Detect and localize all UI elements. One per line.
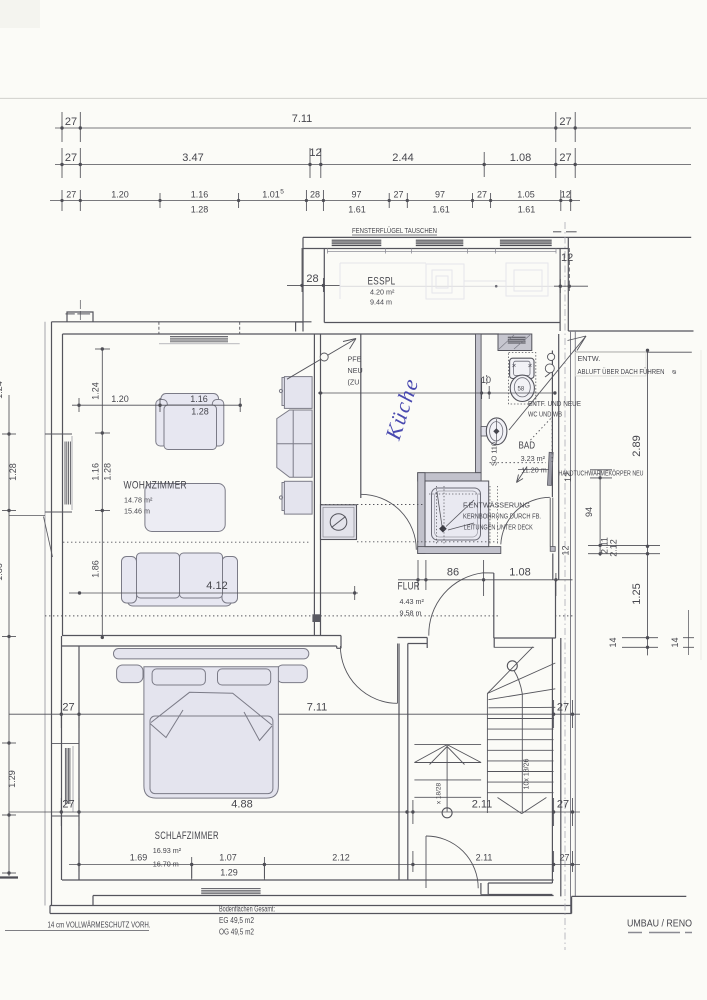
top-left scan smudge xyxy=(0,0,40,28)
svg-text:1.08: 1.08 xyxy=(509,567,530,579)
svg-text:1.86: 1.86 xyxy=(0,563,4,581)
sofa xyxy=(122,553,238,606)
svg-text:1.28: 1.28 xyxy=(191,407,209,417)
10 dim in Bad xyxy=(318,375,555,399)
vent arrow to roof xyxy=(509,336,586,430)
svg-text:NEU: NEU xyxy=(348,366,363,375)
drain point xyxy=(439,525,447,533)
Wohnzimmer north window xyxy=(159,322,240,344)
south wall xyxy=(62,879,554,881)
svg-text:1.29: 1.29 xyxy=(220,868,238,878)
svg-text:27: 27 xyxy=(66,190,76,200)
svg-text:27: 27 xyxy=(477,190,487,200)
svg-text:1.08: 1.08 xyxy=(510,152,531,164)
east wall inner faces xyxy=(558,334,560,580)
far-left outer chain xyxy=(0,395,18,878)
ESSPL east wall xyxy=(559,249,561,332)
svg-text:1.16: 1.16 xyxy=(190,394,208,404)
svg-text:ABLUFT ÜBER DACH FÜHREN: ABLUFT ÜBER DACH FÜHREN xyxy=(578,367,665,376)
coffee table xyxy=(145,484,225,532)
svg-text:28: 28 xyxy=(306,273,318,285)
svg-text:PFE: PFE xyxy=(348,355,362,364)
Pfeiler arrow with circle xyxy=(287,339,356,380)
svg-text:4.20 m²: 4.20 m² xyxy=(370,288,395,297)
svg-text:FLUR: FLUR xyxy=(398,581,421,593)
armchair dim 1.20/1.16/1.28 xyxy=(72,398,240,412)
svg-text:F.ENTWÄSSERUNG: F.ENTWÄSSERUNG xyxy=(463,501,530,510)
svg-text:2.12: 2.12 xyxy=(609,539,619,557)
svg-text:4.88: 4.88 xyxy=(231,799,252,811)
svg-text:SCHLAFZIMMER: SCHLAFZIMMER xyxy=(155,830,219,842)
west wall inner face (Schlafzimmer) xyxy=(78,646,80,880)
svg-text:10: 10 xyxy=(481,375,491,385)
svg-text:27: 27 xyxy=(62,799,74,811)
svg-text:1.20: 1.20 xyxy=(111,190,129,200)
Bad door hinge block xyxy=(550,547,555,552)
svg-text:WOHNZIMMER: WOHNZIMMER xyxy=(124,480,188,492)
svg-text:1.86: 1.86 xyxy=(91,560,101,578)
svg-text:9.58 m: 9.58 m xyxy=(400,609,422,618)
center line + down arrow xyxy=(521,694,523,812)
pillar east face (Kueche west boundary) xyxy=(360,334,362,498)
svg-text:2.11: 2.11 xyxy=(476,853,493,863)
86 / 1.08 dim (Flur) xyxy=(398,560,573,596)
4.12 dim xyxy=(69,592,358,594)
svg-text:1.28: 1.28 xyxy=(103,463,113,481)
svg-text:11.20 m: 11.20 m xyxy=(521,466,546,475)
svg-text:2.11: 2.11 xyxy=(472,799,493,811)
window sill inner line ESSPL xyxy=(327,249,556,254)
bottom dim line y=864.5 (1.69 / 1.07 / 2.12 / 2.11 / 27) xyxy=(69,864,580,866)
black marker square on WZ east wall xyxy=(312,614,320,622)
svg-text:97: 97 xyxy=(435,190,445,200)
svg-text:1.24: 1.24 xyxy=(91,382,101,400)
svg-text:16.70 m: 16.70 m xyxy=(153,860,179,869)
west wall inner face (Wohnzimmer) xyxy=(62,334,64,636)
armchair xyxy=(156,394,224,450)
svg-text:HANDTUCHWÄRMEKÖRPER NEU: HANDTUCHWÄRMEKÖRPER NEU xyxy=(559,469,644,478)
shower tray xyxy=(425,481,498,547)
svg-text:16.93 m²: 16.93 m² xyxy=(153,846,182,855)
svg-text:97: 97 xyxy=(351,190,361,200)
svg-text:7.11: 7.11 xyxy=(292,113,313,125)
stair well north edge xyxy=(494,637,556,639)
28 dim at ESSPL west wall xyxy=(287,248,340,292)
svg-text:27: 27 xyxy=(62,702,74,714)
svg-text:1.24: 1.24 xyxy=(0,381,4,399)
svg-text:27: 27 xyxy=(559,116,571,128)
dotted pipe lines in shower xyxy=(429,486,498,545)
svg-text:27: 27 xyxy=(393,190,403,200)
svg-text:14: 14 xyxy=(608,637,618,647)
south band of ESSPL / north wall of Wohnzimmer-Kueche xyxy=(52,321,312,323)
Bad door leaf + arc xyxy=(549,498,551,547)
svg-text:3.23 m²: 3.23 m² xyxy=(521,454,546,463)
svg-text:FENSTERFLÜGEL TAUSCHEN: FENSTERFLÜGEL TAUSCHEN xyxy=(352,226,437,235)
svg-text:14.78 m²: 14.78 m² xyxy=(124,496,153,505)
svg-text:27: 27 xyxy=(65,116,77,128)
Schlafzimmer west window xyxy=(51,744,79,816)
east wall outer pair xyxy=(570,331,572,914)
kitchen door arc xyxy=(361,494,417,550)
svg-text:27: 27 xyxy=(559,152,571,164)
kitchen dim line y=286 with 12 at right wall xyxy=(340,248,588,293)
nightstand right xyxy=(277,665,308,683)
wall WZ/SZ xyxy=(62,635,341,637)
svg-text:1.20: 1.20 xyxy=(111,394,129,404)
datum cross above WZ xyxy=(66,300,91,320)
right chain C1 (12 / 94 / 2.11 2.12) xyxy=(590,470,612,556)
Schlafzimmer south window xyxy=(192,865,265,894)
svg-text:14 cm VOLLWÄRMESCHUTZ VORH.: 14 cm VOLLWÄRMESCHUTZ VORH. xyxy=(48,921,151,930)
svg-text:12: 12 xyxy=(309,147,321,159)
wall unit top cabinet xyxy=(279,377,312,409)
svg-text:2.44: 2.44 xyxy=(392,152,413,164)
vent shaft (hatched) xyxy=(498,334,532,351)
dots L2 xyxy=(60,163,63,166)
shower west wall band xyxy=(418,473,425,554)
SZ/stair hall wall xyxy=(398,644,400,881)
blanket xyxy=(150,716,273,794)
north wall ESSPL inner xyxy=(303,248,568,250)
dots L1 xyxy=(60,126,577,202)
svg-text:1.61: 1.61 xyxy=(348,205,366,215)
svg-text:2.89: 2.89 xyxy=(631,435,643,456)
wall unit bottom cabinet xyxy=(279,481,312,514)
svg-text:1.05: 1.05 xyxy=(517,190,535,200)
scan fold line xyxy=(0,97,707,99)
svg-text:1.07: 1.07 xyxy=(219,853,237,863)
blanket folds xyxy=(150,692,272,740)
property dash-dot line xyxy=(564,222,566,950)
svg-text:ESSPL: ESSPL xyxy=(368,276,396,288)
dots L3 xyxy=(60,199,63,202)
svg-text:12: 12 xyxy=(561,252,573,264)
svg-text:27: 27 xyxy=(557,799,569,811)
svg-text:27: 27 xyxy=(557,702,569,714)
svg-text:3.47: 3.47 xyxy=(182,152,203,164)
leader arrow to shower corner xyxy=(517,467,528,483)
svg-text:1.61: 1.61 xyxy=(518,205,536,215)
sink xyxy=(481,418,507,445)
svg-text:2.12: 2.12 xyxy=(332,853,350,863)
svg-text:1.29: 1.29 xyxy=(7,770,17,788)
svg-text:1.01: 1.01 xyxy=(262,190,280,200)
entrance door leaf + arc xyxy=(425,836,427,888)
bottom dim line y=714 (27 / 7.11 / 27) xyxy=(9,713,144,715)
svg-text:EG 49,5 m2: EG 49,5 m2 xyxy=(219,916,254,925)
svg-text:1.28: 1.28 xyxy=(191,205,209,215)
SZ door leaf + arc xyxy=(397,644,399,704)
svg-text:94: 94 xyxy=(584,507,594,517)
datum cross top right xyxy=(553,231,577,233)
Wohnzimmer east wall xyxy=(313,334,315,636)
svg-text:5: 5 xyxy=(280,189,284,196)
neighbour stub left of ESSPL xyxy=(296,321,303,323)
ENTW ABLUFT text right xyxy=(575,353,646,377)
svg-text:9.44 m: 9.44 m xyxy=(370,298,392,307)
west wall mid line (bedroom outer leaf) xyxy=(61,636,63,880)
bed shelf bar xyxy=(114,649,309,799)
svg-text:UMBAU / RENO: UMBAU / RENO xyxy=(627,919,692,930)
svg-text:15.46 m: 15.46 m xyxy=(124,507,150,516)
ESSPL faint kitchen fixtures xyxy=(340,263,548,299)
svg-text:x 18/28: x 18/28 xyxy=(436,782,443,804)
Kamin (chimney block) xyxy=(321,505,357,540)
chimney notch above top-left wall xyxy=(67,312,93,322)
west wall outer lines xyxy=(44,322,46,906)
svg-text:4.12: 4.12 xyxy=(206,580,227,592)
wall unit middle (hexagon) xyxy=(277,410,312,477)
svg-text:12: 12 xyxy=(561,545,571,555)
svg-text:WC UND WB: WC UND WB xyxy=(528,410,562,419)
svg-text:27: 27 xyxy=(65,152,77,164)
svg-text:86: 86 xyxy=(447,567,459,579)
svg-text:ENTF. UND NEUE: ENTF. UND NEUE xyxy=(528,399,581,408)
svg-text:SO 110: SO 110 xyxy=(490,442,499,466)
svg-text:Bodenflächen Gesamt:: Bodenflächen Gesamt: xyxy=(219,905,275,914)
svg-text:12: 12 xyxy=(561,190,571,200)
north wall ESSPL outer xyxy=(303,236,691,238)
svg-text:1.69: 1.69 xyxy=(130,853,148,863)
svg-text:1.25: 1.25 xyxy=(631,583,643,604)
svg-text:28: 28 xyxy=(310,190,320,200)
svg-text:1.16: 1.16 xyxy=(91,463,101,481)
svg-text:58: 58 xyxy=(518,387,525,393)
bottom dim line y=812 (27 / 4.88 / 2.11 / 27) xyxy=(9,811,580,813)
svg-text:(ZU: (ZU xyxy=(348,378,360,387)
ESSPL window hatches (north wall) xyxy=(332,240,552,245)
winder area xyxy=(494,646,534,648)
svg-text:KERNBOHRUNG DURCH FB.: KERNBOHRUNG DURCH FB. xyxy=(463,512,541,521)
left interior vertical chain xyxy=(95,349,110,637)
ESSPL west wall xyxy=(302,237,304,331)
WC xyxy=(509,353,536,404)
stair section south wall xyxy=(488,882,552,884)
Bad west wall (gray fill) xyxy=(476,334,482,473)
pillows xyxy=(152,669,205,685)
Wohnzimmer west window xyxy=(45,434,72,512)
svg-text:1.16: 1.16 xyxy=(191,190,209,200)
dim line L1 (7.11 overall) xyxy=(55,127,691,129)
stair hall door arc xyxy=(429,573,494,636)
svg-text:ENTW.: ENTW. xyxy=(578,354,601,363)
svg-text:14: 14 xyxy=(670,637,680,647)
bed body xyxy=(144,667,279,798)
dim line L2 (3.47 / 12 / 2.44 / 1.08 / 27) xyxy=(55,164,691,166)
right flight steps xyxy=(486,694,488,814)
svg-text:OG 49,5 m2: OG 49,5 m2 xyxy=(219,928,254,937)
svg-text:⌀: ⌀ xyxy=(669,370,678,374)
svg-text:1.61: 1.61 xyxy=(432,205,450,215)
svg-text:LEITUNGEN UNTER DECK: LEITUNGEN UNTER DECK xyxy=(464,523,533,532)
svg-text:4.43 m²: 4.43 m² xyxy=(400,597,425,606)
svg-text:BAD: BAD xyxy=(519,440,536,452)
Flur south wall piece over SZ door (right of door) xyxy=(398,637,428,639)
nightstand left xyxy=(117,665,143,683)
towel radiator xyxy=(547,452,553,485)
dim line L3 (small chain) xyxy=(50,200,580,202)
left flight xyxy=(414,744,481,746)
svg-text:7.11: 7.11 xyxy=(307,702,328,714)
svg-text:27: 27 xyxy=(559,853,569,863)
diagonal leader at left wall (insulation mark) xyxy=(9,516,53,557)
shower north wall band xyxy=(418,473,481,481)
svg-text:10x 18/26: 10x 18/26 xyxy=(524,759,531,790)
right chain C2 (2.89 / 1.25 / 14) xyxy=(575,350,694,655)
svg-text:1.28: 1.28 xyxy=(8,463,18,481)
shower south wall band xyxy=(418,547,501,554)
